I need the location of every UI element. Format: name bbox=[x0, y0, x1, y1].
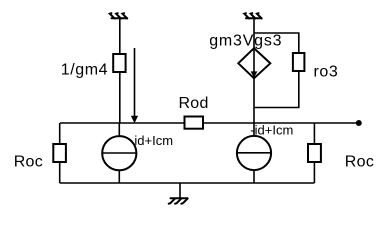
svg-text:Rod: Rod bbox=[179, 95, 209, 112]
wire: left Roc branch bottom bbox=[59, 162, 61, 183]
wire: ro3 branch bottom connector bbox=[254, 71, 299, 108]
resistor R 1/gm4 bbox=[113, 54, 125, 72]
wire: resistor 1/gm4 to top rail bbox=[119, 72, 121, 123]
wire: ground stem bbox=[179, 183, 181, 198]
resistor Rod (series in top rail) bbox=[185, 117, 204, 129]
wire: left supply to resistor 1/gm4 bbox=[119, 18, 121, 54]
current direction arrow (into node) bbox=[131, 48, 138, 123]
svg-text:Roc: Roc bbox=[14, 153, 43, 170]
current source id+Icm (left, circle with bar) bbox=[102, 136, 136, 170]
wire: right Roc branch top bbox=[313, 123, 315, 144]
svg-text:gm3Vgs3: gm3Vgs3 bbox=[209, 32, 282, 49]
resistor Roc (right) bbox=[308, 144, 321, 162]
resistor ro3 bbox=[293, 53, 305, 71]
supply rail symbol (AC ground) top-left bbox=[110, 13, 127, 18]
wire: right Roc branch bottom bbox=[313, 162, 315, 183]
dependent current source gm3Vgs3 (diamond with down arrow) bbox=[238, 48, 270, 78]
resistor Roc (left) bbox=[53, 144, 66, 162]
wire: ro3 branch top connector bbox=[254, 33, 299, 53]
wire: top rail down to right current source bbox=[253, 123, 255, 136]
wire: top rail left segment bbox=[60, 122, 185, 124]
wire: right current source to bottom rail bbox=[253, 170, 255, 183]
ground bbox=[169, 198, 188, 204]
svg-text:ro3: ro3 bbox=[314, 64, 339, 81]
wire: diamond source down to top rail bbox=[253, 78, 255, 123]
wire: left current source to bottom rail bbox=[118, 170, 120, 183]
wire: top rail right segment bbox=[203, 122, 359, 124]
wire: top rail down to left current source bbox=[118, 123, 120, 136]
svg-text:1/gm4: 1/gm4 bbox=[61, 62, 108, 79]
svg-text:id+Icm: id+Icm bbox=[134, 133, 173, 148]
svg-text:-id+Icm: -id+Icm bbox=[250, 123, 293, 138]
node: output terminal dot bbox=[356, 120, 362, 126]
wire: bottom rail bbox=[60, 182, 315, 184]
current source -id+Icm (right, circle with bar) bbox=[237, 136, 271, 170]
wire: right supply to diamond source bbox=[253, 18, 255, 48]
supply rail symbol (AC ground) top-right bbox=[244, 13, 261, 18]
svg-text:Roc: Roc bbox=[345, 153, 374, 170]
wire: left Roc branch top bbox=[59, 123, 61, 144]
